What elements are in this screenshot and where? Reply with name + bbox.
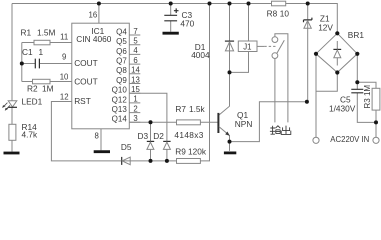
svg-text:1: 1 [133, 95, 137, 104]
svg-text:R9: R9 [175, 146, 186, 156]
svg-text:8: 8 [94, 132, 98, 141]
svg-text:D5: D5 [121, 142, 132, 152]
svg-text:R7: R7 [175, 104, 186, 114]
svg-text:470: 470 [180, 19, 194, 29]
svg-text:NPN: NPN [235, 119, 253, 129]
svg-text:D2: D2 [153, 131, 164, 141]
svg-text:R2: R2 [27, 83, 38, 93]
svg-text:4: 4 [133, 46, 138, 55]
svg-text:J1: J1 [243, 42, 251, 51]
svg-text:1.5k: 1.5k [189, 104, 206, 114]
svg-text:13: 13 [131, 75, 140, 84]
svg-text:4148x3: 4148x3 [174, 130, 203, 140]
svg-text:AC220V IN: AC220V IN [330, 135, 369, 144]
svg-text:3: 3 [133, 114, 137, 123]
svg-text:1/430V: 1/430V [329, 103, 356, 113]
svg-text:Q6: Q6 [116, 47, 127, 56]
svg-text:R8: R8 [267, 8, 278, 18]
svg-text:Q14: Q14 [112, 115, 128, 124]
svg-text:15: 15 [131, 85, 140, 94]
svg-text:1.5M: 1.5M [37, 28, 56, 38]
svg-text:12V: 12V [318, 22, 333, 32]
svg-text:11: 11 [60, 33, 68, 42]
svg-text:Q7: Q7 [116, 57, 127, 66]
svg-text:CIN 4060: CIN 4060 [76, 34, 111, 44]
svg-text:RST: RST [74, 96, 91, 106]
svg-text:10: 10 [60, 73, 69, 82]
svg-text:10: 10 [280, 8, 290, 18]
svg-text:7: 7 [133, 27, 137, 36]
svg-text:9: 9 [62, 53, 66, 62]
svg-text:1: 1 [39, 47, 44, 57]
svg-text:16: 16 [89, 11, 98, 20]
svg-text:COUT: COUT [74, 58, 98, 68]
svg-text:Q8: Q8 [116, 66, 127, 75]
svg-text:6: 6 [133, 56, 137, 65]
svg-text:COUT: COUT [74, 76, 98, 86]
svg-text:C1: C1 [22, 47, 33, 57]
svg-text:Q9: Q9 [116, 76, 127, 85]
svg-text:2: 2 [133, 104, 137, 113]
svg-text:Q5: Q5 [116, 37, 127, 46]
svg-text:Q10: Q10 [112, 86, 128, 95]
svg-text:BR1: BR1 [348, 30, 365, 40]
svg-text:Q13: Q13 [112, 105, 128, 114]
svg-text:R1: R1 [21, 28, 32, 38]
svg-text:120k: 120k [188, 146, 207, 156]
svg-text:Q4: Q4 [116, 27, 127, 36]
svg-text:5: 5 [133, 37, 138, 46]
svg-text:Q12: Q12 [112, 95, 128, 104]
svg-text:14: 14 [131, 66, 140, 75]
svg-text:1M: 1M [42, 83, 54, 93]
svg-text:4004: 4004 [191, 50, 210, 60]
svg-text:12: 12 [60, 93, 69, 102]
svg-text:D3: D3 [138, 131, 149, 141]
svg-text:4.7k: 4.7k [22, 129, 39, 139]
svg-text:R3 1M: R3 1M [363, 85, 372, 109]
svg-text:LED1: LED1 [22, 96, 43, 106]
